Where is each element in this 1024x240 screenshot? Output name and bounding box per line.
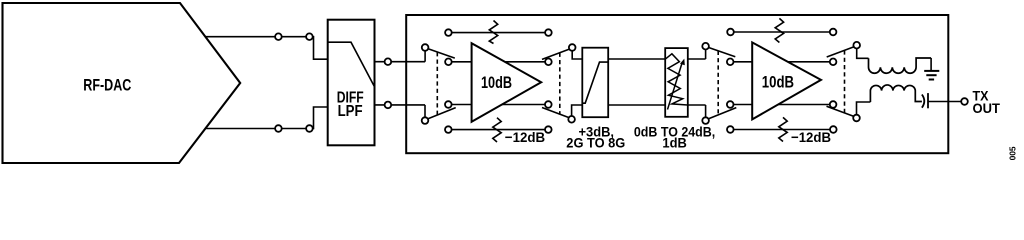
switch S1B pole circle <box>422 117 429 124</box>
wire: DAC positive output to LPF <box>205 37 327 60</box>
switch S1B arm <box>428 108 455 119</box>
wire: amp A1 negative input <box>448 104 471 106</box>
svg-text:−12dB: −12dB <box>505 129 545 145</box>
bypass bottom left throw circle <box>445 126 452 133</box>
switch S1A pole circle <box>422 44 429 51</box>
svg-text:10dB: 10dB <box>762 73 794 91</box>
attenuator AT1 box <box>665 48 688 117</box>
switch S2A arm <box>709 48 736 57</box>
svg-text:LPF: LPF <box>338 103 363 120</box>
svg-text:RF-DAC: RF-DAC <box>83 76 131 94</box>
switch S2D pole circle <box>853 115 860 122</box>
terminal circle LPF negative output <box>385 102 392 109</box>
wire: amp A1 positive input <box>448 61 471 63</box>
bypass bottom right throw circle stage2 <box>830 126 837 133</box>
wire: amp A2 negative output <box>778 104 833 106</box>
switch S2C pole stub <box>857 48 869 58</box>
bypass bottom left throw circle stage2 <box>727 126 734 133</box>
switch S1C pole stub <box>572 51 582 59</box>
throw circle amp A1 negative input <box>445 101 452 108</box>
wire: FL1 to AT1 bottom <box>608 104 665 106</box>
wire: amp A2 positive input <box>730 61 752 63</box>
svg-text:005: 005 <box>1009 146 1018 161</box>
switch S2D arm (output bottom) <box>827 106 854 116</box>
terminal circle on positive wire <box>275 33 282 40</box>
switch S1C arm (output top) <box>542 49 569 59</box>
bypass top left throw circle stage2 <box>727 29 734 36</box>
wire: bypass bottom rail stage2 <box>730 129 833 131</box>
svg-text:−12dB: −12dB <box>791 129 831 145</box>
resistor R3 (stage2 top bypass) <box>775 18 783 42</box>
TX OUT terminal circle <box>961 98 968 105</box>
AT1 arrow <box>668 63 683 109</box>
wire: amp A1 negative output <box>502 104 548 106</box>
throw circle amp A2 negative output <box>830 101 837 108</box>
wire: C1 to TX OUT terminal <box>928 101 961 103</box>
resistor R1 (stage1 top bypass) <box>489 21 497 44</box>
balun T1 secondary winding (bottom coil) <box>870 85 922 102</box>
gang link dashed S1 output <box>559 53 561 114</box>
wire: FL1 to AT1 top <box>608 58 665 60</box>
terminal circle 2 on positive wire <box>306 33 313 40</box>
throw circle amp A1 positive output <box>545 59 552 66</box>
wire: amp A2 positive output <box>788 61 833 63</box>
switch S1D arm (output bottom) <box>542 108 569 118</box>
resistor R4 (stage2 bottom bypass, -12dB) <box>779 117 787 141</box>
throw circle amp A2 positive input <box>727 59 734 66</box>
wire: amp A1 positive output <box>505 61 549 63</box>
terminal circle 2 on negative wire <box>306 125 313 132</box>
capacitor C1 curved plate <box>922 95 924 108</box>
switch S2B pole circle <box>702 117 709 124</box>
balun T1 primary winding (top coil) <box>869 58 932 73</box>
FL1 highpass slope symbol <box>583 62 608 103</box>
bypass top left throw circle <box>445 29 452 36</box>
wire: LPF positive output rail <box>375 61 426 63</box>
amplifier A1 10dB <box>472 43 542 122</box>
switch S1B pole stub (input bottom) <box>424 105 426 118</box>
wire: AT1 to stage2 top <box>688 58 706 60</box>
ground symbol <box>930 58 932 70</box>
amplifier chain enclosure box <box>406 15 948 153</box>
RF-DAC block U1 <box>3 3 241 163</box>
capacitor C1 flat plate <box>927 93 929 108</box>
wire: bypass top rail stage1 <box>448 32 548 34</box>
throw circle amp A1 negative output <box>545 101 552 108</box>
wire: bypass bottom rail stage1 <box>448 129 548 131</box>
switch S2A pole stub (input top) <box>705 49 707 59</box>
switch S2B pole stub (input bottom) <box>705 105 707 117</box>
switch S1C pole circle <box>569 44 576 51</box>
switch S2C arm (output top) <box>827 47 854 57</box>
switch S2B arm <box>709 108 736 119</box>
terminal circle LPF positive output <box>385 58 392 65</box>
svg-text:10dB: 10dB <box>481 74 512 92</box>
bypass top right throw circle <box>545 29 552 36</box>
throw circle amp A2 positive output <box>830 59 837 66</box>
AT1 variable resistor zigzag <box>665 54 687 105</box>
svg-text:OUT: OUT <box>973 101 1001 116</box>
switch S2C pole circle <box>853 42 860 49</box>
throw circle amp A2 negative input <box>727 101 734 108</box>
wire: AT1 to stage2 bottom <box>688 104 706 106</box>
filter FL1 box <box>582 48 608 118</box>
gang link dashed S2 output <box>844 50 846 113</box>
resistor R2 (stage1 bottom bypass, -12dB) <box>493 118 501 142</box>
bypass top right throw circle stage2 <box>830 29 837 36</box>
switch S1D pole stub <box>572 105 583 116</box>
switch S2A pole circle <box>702 43 709 50</box>
switch S1A pole stub (input top) <box>424 51 426 62</box>
switch S1D pole circle <box>568 116 575 123</box>
svg-text:1dB: 1dB <box>662 136 686 152</box>
svg-text:2G TO 8G: 2G TO 8G <box>566 136 625 152</box>
amplifier A2 10dB <box>752 42 821 119</box>
LPF response symbol <box>328 42 374 86</box>
DIFF LPF block FL0 <box>328 20 375 146</box>
wire: bypass top rail stage2 <box>731 31 834 33</box>
gang link dashed S2 input <box>717 51 719 115</box>
wire: amp A2 negative input <box>730 104 752 106</box>
throw circle amp A1 positive input <box>445 59 452 66</box>
switch S2D pole stub <box>857 102 871 115</box>
terminal circle on negative wire <box>275 125 282 132</box>
wire: DAC negative output to LPF <box>206 107 328 129</box>
bypass bottom right throw circle <box>545 126 552 133</box>
wire: LPF negative output rail <box>375 104 426 106</box>
gang link dashed S1 input <box>436 52 438 115</box>
switch S1A arm <box>428 49 455 58</box>
